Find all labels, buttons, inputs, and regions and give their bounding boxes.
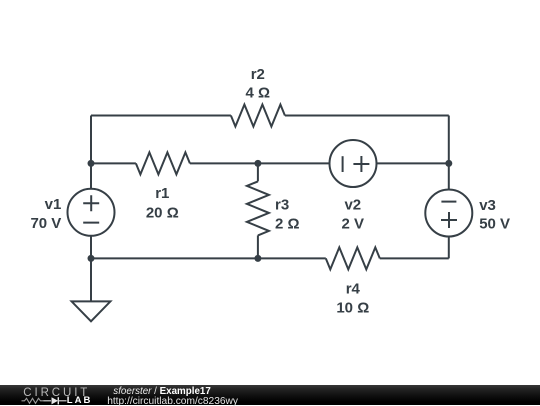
voltage source v3 [425,190,472,237]
node C junction dot (v2 right) [445,160,452,167]
node D junction dot (v1 bottom) [88,255,95,262]
svg-text:r4: r4 [346,281,361,298]
wire r3 top stub [257,163,259,181]
wire mid rail left (node A to r1) [91,162,136,164]
wire mid rail (v2 to node C) [377,162,449,164]
svg-text:2 Ω: 2 Ω [275,216,300,233]
svg-text:10 Ω: 10 Ω [336,300,369,317]
svg-text:v3: v3 [479,197,496,214]
svg-text:r1: r1 [155,185,169,202]
ground [72,301,111,321]
voltage source v2 [330,140,377,187]
wire bottom rail left [91,257,326,259]
wire r3 bottom stub [257,235,259,258]
svg-text:http://circuitlab.com/c8236wy: http://circuitlab.com/c8236wy [107,395,239,405]
node E junction dot (r3 bottom) [254,255,261,262]
svg-text:r2: r2 [251,66,265,83]
svg-text:LAB: LAB [67,395,93,406]
node B junction dot (r3 top) [254,160,261,167]
resistor r2 [231,105,285,127]
footer watermark bar [0,385,540,406]
voltage source v1 [68,189,115,236]
wire right vertical top (top rail to v3) [448,116,450,190]
svg-text:4 Ω: 4 Ω [246,84,271,101]
resistor r3 [247,181,269,235]
logo resistor zigzag glyph [22,398,44,403]
wire v1 bottom stub [90,236,92,258]
svg-text:v1: v1 [45,196,62,213]
svg-text:50 V: 50 V [479,216,510,233]
wire left vertical (top rail to v1) [90,116,92,190]
wire mid rail (r1 to v2) [190,162,330,164]
node A junction dot [88,160,95,167]
logo diode [52,397,59,404]
wire top rail right segment [285,115,449,117]
svg-text:r3: r3 [275,196,289,213]
wire bottom rail right [380,257,449,259]
svg-text:20 Ω: 20 Ω [146,204,179,221]
svg-text:70 V: 70 V [30,215,61,232]
logo wire to diode [44,399,52,401]
svg-text:sfoerster / Example17: sfoerster / Example17 [113,385,211,396]
wire ground stem [90,258,92,301]
svg-text:2 V: 2 V [342,216,365,233]
svg-text:v2: v2 [344,197,361,214]
wire right vertical bottom (v3 to bottom rail) [448,237,450,259]
resistor r4 [326,247,380,269]
wire top rail left segment [91,115,231,117]
logo wire after diode [58,399,66,401]
resistor r1 [136,152,190,174]
